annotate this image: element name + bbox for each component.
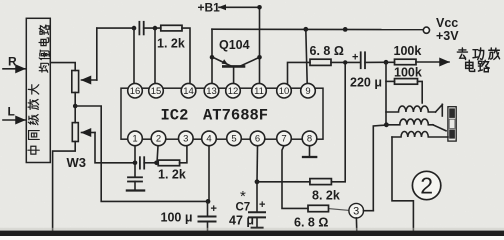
- capacitor bottom coupling: [139, 157, 141, 168]
- svg-text:+B1: +B1: [198, 1, 221, 15]
- char 路 (均衡电路 label): [39, 25, 49, 34]
- svg-text:+: +: [259, 199, 265, 211]
- svg-text:6. 8 Ω: 6. 8 Ω: [294, 216, 328, 230]
- wire 100k lower right drop: [418, 81, 423, 103]
- char 放 (去功放 label): [489, 48, 500, 59]
- svg-text:R: R: [8, 55, 17, 69]
- wire pin2 drop: [157, 146, 158, 163]
- char 电 (电路 label): [466, 60, 475, 71]
- svg-text:2: 2: [420, 173, 433, 199]
- resistor 6.8ohm top: [310, 59, 331, 65]
- svg-text:3: 3: [183, 134, 188, 145]
- wire coil1 contact: [436, 105, 443, 112]
- wire node3 right lead: [364, 210, 374, 212]
- wire pin15 riser: [154, 28, 156, 83]
- node junction D1: [384, 60, 389, 65]
- wire pin1 drop: [134, 146, 136, 163]
- svg-text:1. 2k: 1. 2k: [158, 168, 186, 182]
- char 去 (去功放 label): [457, 48, 467, 60]
- wire W3a wiper riser: [96, 28, 98, 80]
- node junction 345/62: [343, 60, 347, 64]
- wire resistor to pin3: [180, 146, 187, 163]
- bottom scan bar: [0, 228, 504, 231]
- char 路 (电路 label): [478, 60, 489, 71]
- capacitor C7: [256, 182, 258, 212]
- wire pin6 drop: [256, 146, 259, 182]
- svg-text:Q104: Q104: [219, 38, 250, 52]
- wire W3b wiper to pin1 junction: [95, 133, 135, 163]
- wire W3b wiper arrow: [82, 132, 96, 134]
- svg-text:8: 8: [307, 134, 312, 145]
- potentiometer W3b: [72, 123, 78, 142]
- wire top-left signal line: [97, 27, 134, 29]
- capacitor 100u: [207, 201, 209, 215]
- ground bar: [127, 189, 144, 191]
- svg-text:5: 5: [231, 134, 236, 145]
- svg-text:+3V: +3V: [436, 29, 459, 43]
- svg-text:+: +: [211, 203, 217, 215]
- svg-text:14: 14: [183, 86, 194, 97]
- wire B1 feed: [219, 7, 260, 83]
- svg-text:9: 9: [305, 86, 310, 97]
- wire coil2 contact: [433, 125, 446, 131]
- wire center tap to 100u junction: [75, 106, 207, 201]
- wire cap to pin15 node: [144, 27, 161, 29]
- resistor 1.2k bottom: [158, 160, 179, 166]
- char 大 (中间级放大 label): [28, 85, 38, 94]
- resistor 100k lower: [395, 79, 418, 85]
- char 放 (中间级放大 label): [28, 99, 39, 109]
- power rail: [212, 28, 423, 30]
- resistor 100k upper: [395, 59, 417, 64]
- svg-text:15: 15: [151, 86, 162, 97]
- svg-text:2: 2: [156, 134, 161, 145]
- svg-text:3: 3: [353, 206, 359, 218]
- wire pin7 drop: [282, 146, 308, 209]
- svg-text:10: 10: [279, 86, 290, 97]
- svg-text:IC2: IC2: [161, 107, 189, 125]
- svg-text:W3: W3: [67, 155, 87, 170]
- svg-text:100 μ: 100 μ: [161, 211, 193, 225]
- wire L input arrow: [3, 119, 25, 121]
- wire W3a wiper arrow: [82, 79, 97, 81]
- IC pins top: [128, 83, 317, 145]
- capacitor 220u: [360, 52, 362, 68]
- node junction W3 center: [73, 104, 78, 109]
- resistor 6.8ohm bottom: [308, 205, 329, 211]
- node junction pin6: [255, 179, 260, 184]
- capacitor top coupling: [138, 22, 140, 35]
- svg-text:4: 4: [206, 134, 211, 145]
- node junction pin15 riser: [153, 26, 158, 31]
- wire node3 bottom lead: [355, 218, 358, 240]
- wire rail to pin13: [211, 29, 213, 83]
- wire coil3 to bottom: [392, 137, 413, 240]
- block preamp/equalizer box: [26, 18, 50, 162]
- wire D1 down: [385, 62, 387, 125]
- node junction pin16 riser: [132, 26, 137, 31]
- node junction D2 coils: [384, 122, 389, 127]
- wire 220u to 100k: [365, 61, 395, 63]
- transistor Q104: [223, 65, 244, 68]
- node rail junction pin9: [303, 27, 308, 32]
- svg-text:11: 11: [254, 86, 264, 97]
- node rail junction 345: [343, 27, 348, 32]
- char 级 (中间级放大 label): [28, 115, 38, 125]
- resistor 8.2k: [310, 179, 332, 185]
- wire pin9 riser: [306, 29, 307, 83]
- svg-text:47 μ: 47 μ: [229, 214, 254, 228]
- svg-text:16: 16: [130, 86, 141, 97]
- svg-text:220 μ: 220 μ: [350, 75, 382, 89]
- node terminal 3: [349, 203, 364, 218]
- jack connector: [448, 107, 456, 141]
- inductor coil2: [386, 119, 433, 125]
- pin numbers: [130, 86, 312, 145]
- wire pin8 ground: [309, 146, 311, 156]
- svg-text:AT7688F: AT7688F: [203, 107, 268, 125]
- wire W3b bottom to ground bar: [53, 142, 76, 231]
- char 中 (中间级放大 label): [28, 146, 39, 154]
- char 功 (去功放 label): [473, 48, 484, 59]
- wire pin6 node to 8.2k: [257, 181, 310, 183]
- wire box to pot W3a top: [50, 63, 75, 71]
- svg-text:13: 13: [206, 86, 217, 97]
- B1 arrowhead: [218, 4, 226, 10]
- svg-text:6. 8 Ω: 6. 8 Ω: [310, 44, 344, 58]
- inductor coil1: [386, 106, 436, 112]
- svg-text:8. 2k: 8. 2k: [312, 189, 340, 203]
- potentiometer W3a: [72, 71, 79, 93]
- wire pin10 riser: [288, 62, 311, 83]
- svg-text:100k: 100k: [394, 44, 422, 58]
- wire 8.2k right to top junction: [331, 62, 345, 181]
- ground pin8: [303, 156, 316, 158]
- terminal Vcc: [423, 27, 429, 33]
- IC2 body: [121, 88, 323, 139]
- svg-text:L: L: [8, 105, 15, 119]
- svg-text:12: 12: [228, 86, 239, 97]
- node junction below pin1: [133, 161, 138, 166]
- svg-text:+: +: [352, 52, 358, 64]
- char 衡 (均衡电路 label): [39, 50, 49, 60]
- wire resistor to pin14 riser: [182, 28, 190, 83]
- capacitor below pin1 to ground: [134, 163, 136, 177]
- wire pin16 riser: [133, 28, 135, 83]
- ground tick C7: [252, 227, 263, 229]
- node collector junction: [257, 55, 262, 60]
- wire 6.8ohm to node 3: [329, 209, 349, 211]
- resistor 1.2k top: [161, 25, 182, 31]
- node emitter junction: [210, 55, 215, 60]
- char 均 (均衡电路 label): [39, 63, 48, 72]
- svg-text:7: 7: [281, 134, 286, 145]
- node terminal 2: [412, 171, 440, 199]
- wire node3 to coil junction: [373, 125, 386, 211]
- char 电 (均衡电路 label): [39, 38, 49, 46]
- wire to 100k lower: [386, 80, 395, 82]
- inductor coil3: [392, 132, 448, 138]
- node junction 100u: [206, 199, 211, 204]
- node junction below pin2: [154, 161, 159, 166]
- wire pin4 drop: [208, 146, 210, 202]
- wire 6.8 to 220u: [331, 61, 361, 63]
- wire W3a bottom lead: [74, 93, 76, 107]
- svg-text:100k: 100k: [394, 66, 422, 80]
- wire W3b top lead: [74, 106, 76, 123]
- svg-text:1. 2k: 1. 2k: [157, 37, 185, 51]
- char 间 (中间级放大 label): [29, 131, 40, 140]
- svg-text:*: *: [240, 188, 246, 205]
- wire R input arrow: [3, 68, 25, 70]
- node B1 corner: [257, 5, 262, 10]
- svg-text:6: 6: [255, 134, 260, 145]
- wire output arrow: [416, 61, 449, 63]
- svg-text:1: 1: [132, 134, 137, 145]
